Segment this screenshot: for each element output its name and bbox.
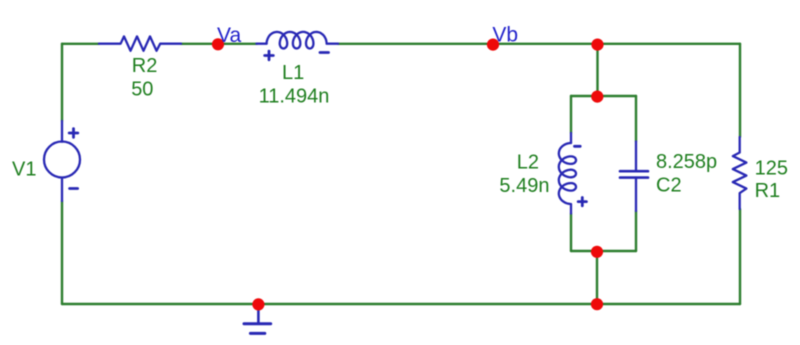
svg-text:L2: L2	[517, 152, 539, 174]
node junction ground	[252, 298, 264, 310]
capacitor C2	[620, 142, 648, 212]
wire right lower (R1 to bottom corner)	[739, 209, 741, 304]
wire tank right upper	[635, 96, 637, 142]
svg-text:V1: V1	[12, 159, 36, 181]
wire tank bottom rail	[571, 250, 636, 252]
wire tank left lower	[570, 214, 572, 252]
svg-text:Va: Va	[217, 24, 241, 47]
wire tank left upper	[570, 96, 572, 133]
node dot Vb	[487, 39, 499, 51]
inductor L2	[559, 133, 587, 214]
wire tank top rail	[571, 95, 636, 97]
voltage source V1	[44, 121, 80, 201]
node junction bottom rail	[591, 298, 603, 310]
svg-text:5.49n: 5.49n	[499, 175, 549, 197]
node junction tank top	[591, 91, 603, 103]
wire tank right lower	[635, 211, 637, 251]
wire bottom	[62, 303, 740, 305]
svg-text:L1: L1	[282, 62, 304, 84]
node junction tank bottom	[591, 246, 603, 258]
svg-text:50: 50	[131, 79, 153, 101]
wire left upper (corner to V1)	[61, 44, 63, 121]
wire tank-bottom stub to ground rail	[596, 251, 598, 304]
svg-text:C2: C2	[656, 175, 682, 197]
ground	[244, 306, 271, 333]
wire top middle segment (R2 to L1)	[181, 43, 257, 45]
wire top right segment (L1 to top-right corner)	[338, 43, 740, 45]
svg-text:11.494n: 11.494n	[259, 85, 330, 107]
svg-text:8.258p: 8.258p	[656, 151, 717, 173]
wire left lower (V1 to bottom corner)	[61, 201, 63, 304]
wire branch Vb-node down to tank	[596, 44, 598, 96]
svg-text:R1: R1	[755, 180, 781, 202]
inductor L1	[257, 32, 339, 60]
node dot Va	[212, 38, 224, 50]
wire right upper (corner to R1)	[739, 44, 741, 137]
svg-text:R2: R2	[132, 55, 158, 77]
svg-text:125: 125	[755, 157, 788, 179]
wire top-left segment	[62, 43, 99, 45]
node junction top of tank branch	[591, 39, 603, 51]
resistor R1	[733, 137, 747, 209]
svg-text:Vb: Vb	[492, 23, 518, 46]
resistor R2	[99, 36, 181, 50]
